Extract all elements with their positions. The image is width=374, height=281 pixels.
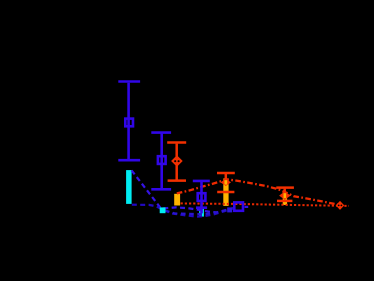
blue dashed upper line tail [245, 206, 249, 208]
red diamond 1 [171, 155, 183, 167]
blue errorbar 3 [193, 181, 210, 214]
blue dashed upper line [132, 170, 236, 212]
orange bar 1 [174, 194, 180, 206]
red errorbar 2 [217, 173, 235, 192]
blue dashed lower line [132, 205, 236, 217]
red diamond 4 [336, 201, 345, 210]
blue dashed middle line [165, 209, 231, 214]
cyan square marker 1 [160, 207, 166, 213]
red dotted line [181, 203, 349, 206]
blue errorbar 1 [118, 82, 140, 161]
orange bar 3 [283, 192, 287, 205]
dark blue marker [227, 207, 232, 212]
red diamond 3 (orange bar crosses it) [279, 191, 290, 199]
red dash-dot theory line [177, 179, 341, 205]
red diamond 2 (orange bar crosses it) [221, 179, 231, 186]
red errorbar 1 [167, 143, 186, 181]
cyan bar 1 [126, 170, 132, 204]
red errorbar 3 [276, 188, 294, 201]
blue errorbar 2 [151, 133, 171, 190]
orange bar 2 [223, 178, 228, 206]
cyan bar 2 [199, 207, 204, 216]
blue open square 4 [234, 202, 243, 210]
